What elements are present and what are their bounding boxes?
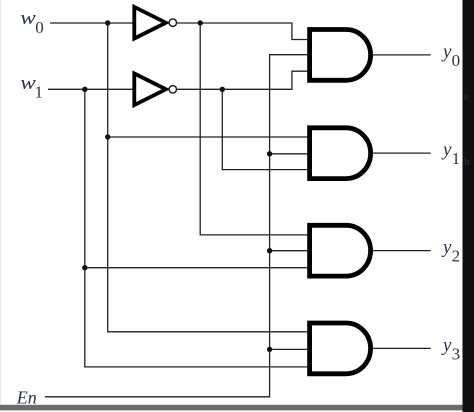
wire NOT2 output branch to AND y1 input3 bbox=[222, 89, 308, 169]
svg-text:y: y bbox=[441, 42, 452, 63]
svg-text:0: 0 bbox=[452, 51, 461, 70]
wire En branch to AND y1 input2 bbox=[270, 153, 308, 155]
node junction w0 top bbox=[105, 20, 110, 25]
node junction En at y2 bbox=[267, 248, 272, 253]
page-edge bar right bbox=[463, 0, 474, 412]
svg-text:w: w bbox=[20, 8, 36, 29]
node junction w1 at y2 bbox=[82, 265, 87, 270]
svg-text:h: h bbox=[464, 156, 470, 168]
and-gate y0 bbox=[310, 30, 371, 81]
svg-text:y: y bbox=[441, 237, 452, 258]
node junction w1 bbox=[82, 87, 87, 92]
svg-text:2: 2 bbox=[452, 247, 461, 266]
wire output y2 bbox=[373, 250, 431, 252]
node junction En at y1 bbox=[267, 151, 272, 156]
svg-text:3: 3 bbox=[452, 344, 461, 363]
node junction NOT1 output bbox=[198, 20, 203, 25]
node junction NOT2 output bbox=[220, 87, 225, 92]
inverter NOT2 triangle bbox=[134, 74, 166, 106]
wire NOT1 output branch to AND y2 input1 bbox=[200, 23, 308, 235]
wire output y1 bbox=[373, 152, 431, 154]
inverter NOT1 triangle bbox=[134, 7, 166, 39]
wire w0 vertical branch to AND y3 input1 bbox=[108, 23, 308, 332]
node junction w0 at y1 bbox=[105, 134, 110, 139]
and-gate y3 bbox=[310, 323, 371, 374]
wire w1 vertical branch to AND y3 input3 bbox=[85, 89, 308, 367]
and-gate y1 bbox=[310, 128, 371, 179]
wire En branch to AND y2 input2 bbox=[270, 250, 308, 252]
svg-text:0: 0 bbox=[35, 18, 44, 37]
wire NOT2 output to AND y0 input3 bbox=[176, 71, 308, 89]
and-gate y2 bbox=[310, 225, 371, 276]
svg-text:y: y bbox=[441, 140, 452, 161]
wire output y0 bbox=[373, 54, 431, 56]
wire w0 branch to AND y1 input1 bbox=[108, 136, 308, 138]
wire w1 input bbox=[48, 88, 133, 90]
wire En to AND y0 input2 bbox=[45, 55, 308, 397]
page-edge bar bottom bbox=[0, 405, 463, 411]
wire output y3 bbox=[373, 347, 431, 349]
inverter NOT1 bubble bbox=[169, 19, 176, 26]
wire w1 branch to AND y2 input3 bbox=[85, 267, 308, 269]
svg-text:1: 1 bbox=[35, 83, 44, 102]
svg-text:e: e bbox=[464, 91, 469, 103]
node junction En at y3 bbox=[267, 347, 272, 352]
wire En branch to AND y3 input2 bbox=[270, 348, 308, 350]
page-edge faint left line bbox=[0, 0, 1, 405]
wire w0 input bbox=[50, 22, 133, 24]
svg-text:1: 1 bbox=[452, 149, 461, 168]
svg-text:y: y bbox=[441, 335, 452, 356]
inverter NOT2 bubble bbox=[169, 86, 176, 93]
wire NOT1 output to AND y0 input1 bbox=[176, 23, 308, 40]
svg-text:En: En bbox=[16, 387, 37, 407]
